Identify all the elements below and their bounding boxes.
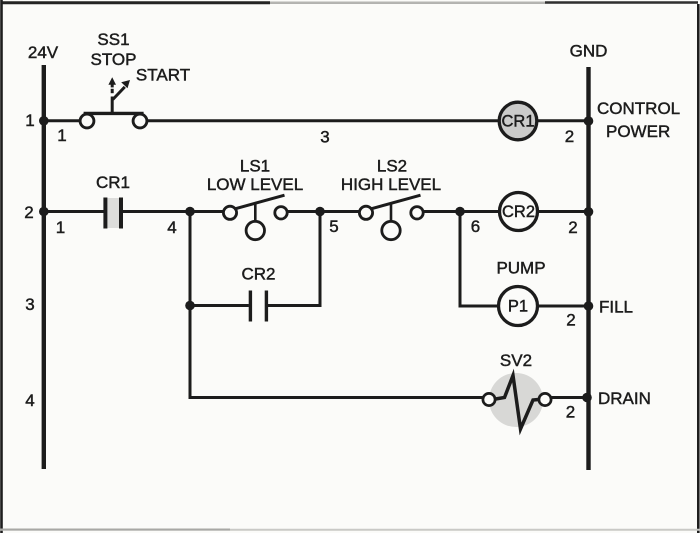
svg-text:SV2: SV2: [500, 351, 532, 370]
svg-text:2: 2: [566, 403, 575, 422]
svg-text:2: 2: [568, 218, 577, 237]
svg-text:5: 5: [329, 217, 338, 236]
svg-text:2: 2: [24, 203, 33, 222]
svg-text:6: 6: [471, 217, 480, 236]
svg-text:CR1: CR1: [96, 173, 130, 192]
svg-text:CR1: CR1: [501, 113, 534, 131]
svg-text:DRAIN: DRAIN: [598, 389, 651, 408]
svg-text:4: 4: [167, 218, 176, 237]
svg-text:P1: P1: [508, 298, 528, 316]
svg-text:CR2: CR2: [502, 203, 535, 221]
svg-text:2: 2: [565, 127, 574, 146]
svg-text:3: 3: [320, 128, 329, 147]
svg-text:2: 2: [566, 311, 575, 330]
svg-text:LOW LEVEL: LOW LEVEL: [207, 175, 303, 194]
svg-text:POWER: POWER: [606, 122, 670, 141]
svg-text:3: 3: [25, 295, 34, 314]
svg-text:CR2: CR2: [241, 265, 275, 284]
svg-text:24V: 24V: [28, 43, 59, 62]
svg-text:HIGH LEVEL: HIGH LEVEL: [341, 175, 441, 194]
svg-text:GND: GND: [570, 42, 608, 61]
svg-text:START: START: [136, 66, 190, 85]
svg-text:1: 1: [57, 126, 66, 145]
svg-text:FILL: FILL: [599, 298, 633, 317]
svg-text:1: 1: [25, 111, 34, 130]
svg-text:SS1: SS1: [97, 30, 129, 49]
svg-text:PUMP: PUMP: [496, 259, 545, 278]
svg-text:STOP: STOP: [91, 50, 137, 69]
svg-text:CONTROL: CONTROL: [597, 99, 680, 118]
svg-text:LS1: LS1: [240, 157, 270, 176]
svg-text:LS2: LS2: [377, 157, 407, 176]
svg-text:1: 1: [56, 218, 65, 237]
svg-text:4: 4: [25, 391, 34, 410]
